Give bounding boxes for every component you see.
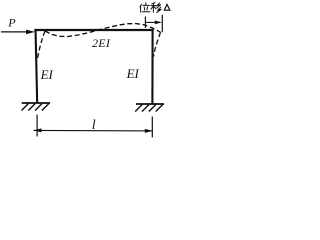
span dimension left tick xyxy=(36,115,38,137)
span dimension right tick xyxy=(151,117,153,138)
displacement dimension right tick xyxy=(161,15,163,33)
right fixed support ground line xyxy=(136,103,164,105)
Δ symbol xyxy=(164,4,170,10)
span dimension right arrowhead xyxy=(145,129,153,133)
svg-text:2EI: 2EI xyxy=(92,36,111,50)
left fixed support ground line xyxy=(22,102,50,104)
displacement label 位移Δ xyxy=(140,3,161,13)
span dimension line xyxy=(34,129,154,132)
dashed deflected beam xyxy=(45,24,161,37)
位 character xyxy=(140,4,142,7)
移 character xyxy=(152,3,155,4)
displacement dimension left tick xyxy=(144,17,146,28)
beam 2EI xyxy=(34,29,153,31)
span dimension left arrowhead xyxy=(33,128,41,132)
right column EI xyxy=(151,29,153,105)
svg-text:P: P xyxy=(7,15,16,29)
dashed deflected right column xyxy=(154,32,161,56)
svg-text:l: l xyxy=(92,118,96,133)
load arrow P xyxy=(1,30,35,35)
displacement dimension arrow xyxy=(145,21,162,25)
svg-text:EI: EI xyxy=(126,66,140,81)
left column EI xyxy=(36,29,38,103)
right support hatch marks xyxy=(135,105,163,112)
svg-text:EI: EI xyxy=(40,67,54,82)
dashed deflected left column xyxy=(37,31,45,59)
left support hatch marks xyxy=(22,104,49,111)
